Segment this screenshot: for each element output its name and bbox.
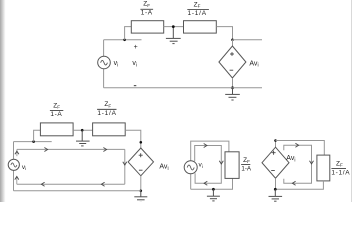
current loop arrow down (310, 161, 314, 164)
ground between Z1 and Z2 (166, 27, 181, 44)
current loop bottom wire (17, 183, 125, 185)
svg-text:1-1/A: 1-1/A (331, 170, 350, 177)
label - of input node (134, 85, 137, 87)
svg-text:vi: vi (199, 162, 203, 169)
wire outer loop (191, 141, 229, 161)
svg-text:ZF: ZF (194, 1, 201, 8)
impedance Z6 box ZF/(1-1/A) vertical (317, 155, 330, 181)
svg-text:vi: vi (132, 60, 137, 68)
current loop arrow down (123, 162, 127, 165)
node G junction dot (140, 190, 143, 193)
node D junction dot (32, 140, 35, 143)
svg-text:ZF: ZF (143, 1, 150, 8)
wire Z4 to E2 (125, 130, 141, 148)
svg-text:1-A: 1-A (241, 165, 252, 172)
svg-text:+: + (134, 44, 138, 51)
ground under E2 (134, 191, 147, 203)
current loop arrow right 1 (44, 148, 47, 152)
svg-text:ZF: ZF (336, 160, 343, 167)
current loop arrow up left bottom (15, 177, 19, 185)
wire E3 bottom (275, 178, 277, 189)
ground under bottom middle (207, 189, 220, 201)
page left edge shading (0, 0, 6, 202)
wire E1 bottom (232, 78, 234, 88)
svg-text:Avi: Avi (159, 164, 168, 172)
wire Z2 to output node (216, 27, 232, 40)
wire bottom rail (104, 87, 262, 89)
impedance Z1 box ZF/(1-A) (131, 21, 163, 33)
dependent source E1 diamond Avi (219, 46, 246, 78)
ground under E1 (225, 88, 240, 100)
current loop arrow down (219, 161, 223, 164)
current loop top wire (17, 148, 125, 150)
svg-text:1-1/A: 1-1/A (188, 10, 207, 17)
node E junction dot (81, 129, 84, 132)
voltage source V1 (98, 56, 111, 69)
page right edge faint line (351, 0, 353, 202)
wire bottom rail left (14, 190, 142, 192)
current loop arrow right (295, 143, 298, 147)
label ZF/(1-A) of Z3 (50, 102, 63, 118)
wire E3 top (275, 141, 277, 148)
wire node D up to Z3 (34, 130, 41, 141)
current loop arrow left 2 (101, 182, 104, 186)
impedance Z4 box ZF/(1-1/A) (93, 123, 126, 136)
current loop rectangle (195, 146, 222, 184)
ground between Z3 and Z4 (76, 130, 90, 146)
wire between Z1 and Z2 (164, 26, 184, 28)
label ZF/(1-A) of Z1 (140, 1, 153, 17)
label ZF/(1-1/A) of Z2 (187, 1, 209, 17)
current loop arrow up left top (15, 149, 19, 156)
voltage source V3 (184, 161, 197, 174)
current loop arrow left 1 (41, 182, 44, 186)
wire outer bottom (191, 178, 233, 189)
wire outer top-left (14, 141, 52, 143)
current loop arrow right (204, 144, 207, 148)
node H junction dot (212, 188, 215, 191)
node C junction dot (231, 86, 234, 89)
wire node B to source E1 (232, 40, 234, 46)
impedance Z2 box ZF/(1-1/A) (184, 21, 217, 33)
impedance Z3 box ZF/(1-A) (40, 123, 73, 136)
svg-text:vi: vi (114, 60, 119, 68)
current loop arrow left (204, 181, 207, 185)
svg-text:1-A: 1-A (50, 111, 62, 118)
wire Z6 bottom (276, 181, 324, 189)
wire outer left bottom (190, 174, 192, 190)
wire outer left vertical bottom (13, 170, 15, 191)
ground under E3 (269, 189, 283, 201)
wire outer top right (276, 141, 325, 156)
svg-text:1-1/A: 1-1/A (97, 110, 116, 117)
dependent source E3 diamond Avi (262, 147, 289, 178)
svg-text:ZF: ZF (104, 101, 111, 108)
current loop with arrows (284, 145, 312, 183)
dependent source E2 diamond Avi (128, 148, 153, 176)
label ZF/(1-1/A) of Z4 (97, 101, 117, 117)
svg-text:1-A: 1-A (141, 10, 153, 17)
wire source vi vertical bottom (103, 68, 105, 87)
svg-text:Avi: Avi (249, 60, 258, 68)
current loop right vertical (124, 149, 126, 184)
wire between Z3 and Z4 (73, 129, 93, 131)
wire output stub (233, 39, 263, 41)
wire E2 bottom (140, 176, 142, 191)
svg-text:ZF: ZF (53, 102, 60, 109)
node I junction dot (274, 139, 277, 142)
current loop arrow right 2 (103, 148, 106, 152)
node F junction dot (140, 141, 143, 144)
wire node A up to Z1 (125, 27, 132, 40)
node J junction dot (274, 188, 277, 191)
wire outer left vertical top (13, 142, 15, 160)
voltage source V2 (8, 159, 19, 170)
wire top-left horizontal (node vi to stub) (104, 39, 142, 41)
current loop arrow left (292, 181, 295, 185)
label ZF/(1-1/A) of Z6 (331, 160, 350, 176)
svg-text:ZF: ZF (243, 157, 250, 164)
node B junction dot (231, 39, 234, 42)
wire source vi vertical top (103, 40, 105, 57)
label ZF/(1-A) of Z5 (241, 157, 252, 173)
impedance Z5 box ZF/(1-A) vertical (225, 152, 239, 179)
svg-text:vi: vi (22, 164, 26, 171)
node A junction dot (123, 39, 126, 42)
